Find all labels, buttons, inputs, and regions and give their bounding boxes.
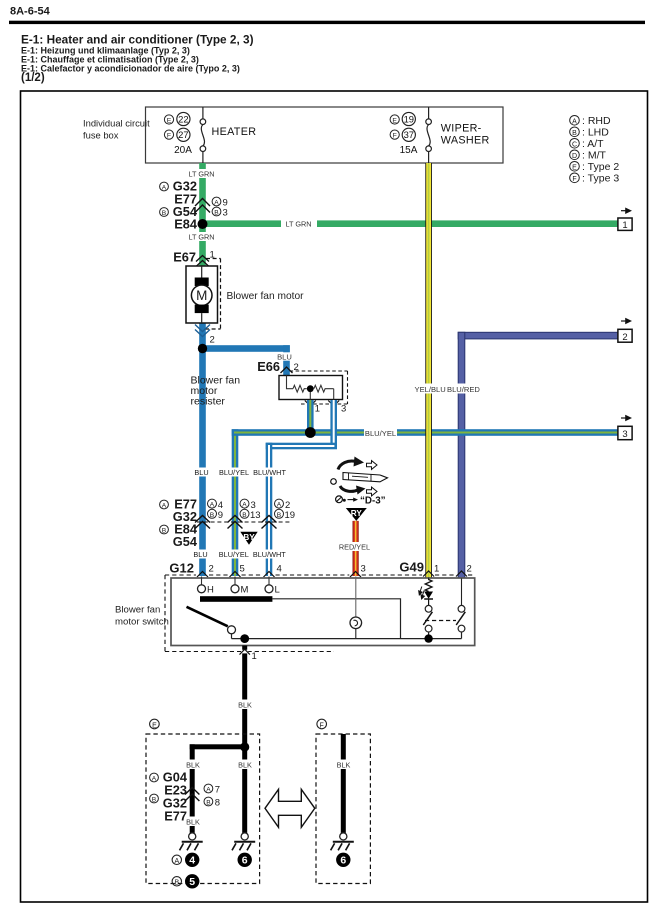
chevrons ground connector — [185, 788, 199, 802]
wire BLU/RED horizontal from terminal 2 — [458, 332, 618, 339]
wire BLU/YEL vertical to switch — [232, 429, 239, 576]
svg-text:B: B — [242, 512, 247, 519]
label BLK main — [237, 700, 253, 710]
wire BLK type 3 ground leg — [341, 734, 346, 833]
G49 pin 2 lead — [461, 579, 463, 606]
wire BLU/WHT from resister pin 3 — [330, 400, 337, 446]
svg-text:BLK: BLK — [238, 701, 252, 710]
G49 switch lower contacts — [425, 625, 432, 632]
wire BLU/YEL horizontal to terminal 3 — [232, 429, 618, 436]
wire BLU vertical main — [199, 323, 206, 576]
svg-text:G54: G54 — [173, 534, 198, 549]
svg-text:15A: 15A — [400, 145, 418, 156]
svg-text:B: B — [572, 130, 577, 137]
header rule bar — [9, 21, 645, 24]
pin A9 — [212, 197, 221, 206]
LED arrows — [419, 587, 425, 600]
svg-text:1: 1 — [434, 564, 439, 575]
lever link dashed — [425, 620, 456, 622]
wire RED/YEL to G12 pin 3 — [353, 521, 359, 576]
blower fan motor switch box — [171, 578, 475, 646]
pin B9 — [208, 509, 217, 518]
fuse WIPER-WASHER labels — [390, 112, 489, 155]
label BLK left — [185, 760, 201, 770]
svg-text:5: 5 — [240, 564, 245, 575]
svg-text:B: B — [214, 210, 219, 217]
wire from bar to lamp branch — [272, 599, 400, 639]
svg-text:E-1: Heater and air conditione: E-1: Heater and air conditioner (Type 2,… — [21, 33, 254, 47]
dashed box E — [146, 734, 260, 884]
svg-text:Individual circuit: Individual circuit — [83, 118, 150, 129]
svg-text:E: E — [167, 118, 172, 125]
pin A2 — [275, 499, 284, 508]
illumination lamp — [350, 617, 362, 629]
svg-text:7: 7 — [215, 785, 220, 796]
svg-text:BLU/YEL: BLU/YEL — [365, 429, 396, 438]
wire LT GRN vertical from heater fuse — [199, 163, 206, 266]
svg-text:2: 2 — [210, 335, 215, 346]
svg-text:B: B — [162, 210, 167, 217]
connector boundary dashed line — [197, 521, 292, 523]
BY splice triangle — [240, 532, 257, 545]
junction node below motor — [198, 344, 207, 353]
chevrons BLU/YEL wire — [228, 516, 243, 529]
svg-text:YEL/BLU: YEL/BLU — [415, 385, 446, 394]
svg-text:A: A — [162, 185, 167, 192]
circled E marker — [150, 719, 160, 729]
svg-text:Blower fan: Blower fan — [115, 605, 160, 616]
wire labels BLU BLU/YEL BLU/WHT lower row — [193, 550, 285, 559]
wire BLU vertical into E66 — [283, 345, 290, 375]
connector labels E77 G32 E84 G54 — [173, 497, 198, 550]
terminal box 1 — [618, 218, 632, 230]
connector labels G32 E77 G54 E84 — [173, 179, 198, 232]
svg-text:BLU/WHT: BLU/WHT — [253, 550, 286, 559]
wire BLK middle ground leg — [242, 747, 247, 833]
svg-text:3: 3 — [361, 564, 366, 575]
svg-text:M: M — [241, 585, 249, 596]
label LT GRN lower — [189, 232, 214, 241]
svg-text:A: A — [206, 787, 211, 794]
label BLU/YEL on horizontal wire — [364, 427, 397, 438]
connector labels G04 E23 G32 E77 — [163, 770, 188, 824]
svg-text:BLU/WHT: BLU/WHT — [253, 468, 286, 477]
svg-text:(1/2): (1/2) — [21, 72, 45, 84]
fuse WIPER-WASHER 15A — [426, 107, 432, 163]
RY splice triangle — [346, 508, 367, 521]
svg-text:motor switch: motor switch — [115, 617, 169, 628]
wire BLU/RED vertical to G49 — [458, 332, 465, 579]
label BLU at E66 — [277, 352, 293, 360]
svg-text:BLK: BLK — [186, 818, 200, 827]
switch lever contact — [228, 626, 236, 634]
svg-text:WIPER-: WIPER- — [441, 122, 482, 134]
svg-text:A: A — [242, 502, 247, 509]
switch pin M — [234, 577, 236, 585]
G49 illumination LED — [424, 592, 433, 599]
svg-text:19: 19 — [404, 113, 414, 124]
junction node illumination return — [424, 634, 432, 642]
svg-text:WASHER: WASHER — [441, 134, 490, 146]
wire BLK switch output — [242, 646, 247, 748]
terminal box 2 — [618, 329, 632, 342]
label LT GRN on horizontal wire — [281, 218, 317, 230]
svg-text:fuse box: fuse box — [83, 130, 119, 141]
svg-text:LT GRN: LT GRN — [188, 232, 214, 241]
fuse HEATER 20A — [200, 107, 206, 163]
connector boundary dashed lines G12 G49 — [165, 575, 475, 652]
D-3 harness pictogram — [331, 457, 388, 507]
svg-text:E: E — [572, 165, 577, 172]
terminal arrow 2 — [621, 319, 631, 324]
svg-text:F: F — [320, 722, 324, 729]
svg-text:“D-3”: “D-3” — [360, 495, 386, 506]
svg-text:H: H — [207, 585, 214, 596]
svg-text:C: C — [572, 142, 577, 149]
svg-text:13: 13 — [250, 510, 261, 521]
svg-text:: A/T: : A/T — [582, 138, 604, 150]
svg-text:Blower fan motor: Blower fan motor — [227, 291, 305, 302]
blower fan motor dashed outline — [205, 259, 221, 330]
ground point 5 marker — [172, 877, 181, 886]
junction node E84 — [198, 219, 208, 229]
svg-text:BLU: BLU — [193, 550, 207, 559]
label RED/YEL — [339, 542, 370, 551]
pin B8 — [204, 797, 213, 806]
pin A7 — [204, 784, 213, 793]
svg-text:1: 1 — [252, 651, 257, 662]
resister internal wiring — [287, 376, 334, 400]
ground point 6 marker type 3 — [336, 853, 350, 867]
label LT GRN upper — [189, 169, 214, 178]
svg-text:BLU/YEL: BLU/YEL — [219, 468, 249, 477]
chevrons BLU wire — [195, 516, 210, 529]
svg-text:37: 37 — [404, 129, 414, 140]
ground symbol middle — [232, 833, 255, 850]
svg-text:A: A — [572, 119, 577, 126]
svg-text:HEATER: HEATER — [212, 126, 257, 138]
ground point 6 marker — [238, 853, 252, 867]
svg-text:A: A — [152, 776, 157, 783]
terminal arrow 3 — [621, 416, 631, 421]
boundary chevrons G49 pins — [423, 571, 467, 577]
svg-text:BY: BY — [243, 533, 255, 542]
svg-text:8A-6-54: 8A-6-54 — [10, 6, 51, 18]
switch common bar — [200, 596, 272, 602]
terminal box 3 — [618, 426, 632, 439]
label BLK type 3 — [336, 760, 352, 770]
wire BLK left ground leg — [190, 744, 195, 833]
svg-text:BLK: BLK — [186, 761, 200, 770]
svg-text:3: 3 — [622, 429, 627, 440]
svg-text:E67: E67 — [173, 250, 196, 265]
dashed box F — [316, 734, 370, 884]
svg-text:A: A — [277, 502, 282, 509]
svg-text:: LHD: : LHD — [582, 127, 609, 139]
switch output pin chevron — [241, 650, 248, 654]
wire BLU/WHT vertical to switch — [266, 443, 273, 576]
junction node resister output — [305, 427, 316, 438]
G49 resistor symbol — [428, 578, 430, 581]
svg-text:E84: E84 — [174, 217, 198, 232]
wire BLU/YEL from resister pin 1 — [307, 400, 314, 433]
label BLK middle — [237, 760, 253, 770]
svg-text:27: 27 — [178, 129, 188, 140]
svg-text:B: B — [162, 528, 167, 535]
svg-text:LT GRN: LT GRN — [188, 169, 214, 178]
svg-text:E-1: Calefactor y acondicionad: E-1: Calefactor y acondicionador de aire… — [21, 64, 240, 74]
svg-text:: M/T: : M/T — [582, 150, 606, 162]
labels YEL/BLU and BLU/RED — [412, 384, 478, 394]
svg-text:6: 6 — [340, 855, 346, 867]
legend of circled option letters — [570, 115, 620, 185]
svg-text:A: A — [214, 200, 219, 207]
svg-text:B: B — [277, 512, 282, 519]
svg-text:: Type 2: : Type 2 — [582, 161, 619, 173]
motor pin 2 chevrons — [195, 325, 210, 337]
svg-text:B: B — [174, 880, 179, 887]
resister junction node — [307, 385, 314, 392]
svg-text:LT GRN: LT GRN — [285, 220, 311, 229]
ground symbol type 3 — [331, 833, 354, 850]
svg-text:G49: G49 — [399, 560, 424, 575]
pin A3 — [240, 499, 249, 508]
svg-text:: Type 3: : Type 3 — [582, 173, 619, 185]
G49 switch levers — [423, 612, 432, 625]
svg-text:BLK: BLK — [337, 761, 351, 770]
label Blower fan motor resister — [191, 375, 241, 408]
svg-text:A: A — [174, 858, 179, 865]
blower fan motor box — [186, 266, 218, 323]
label BLK below connector — [185, 817, 201, 827]
illumination lamp feed — [355, 577, 357, 618]
svg-text:M: M — [196, 288, 207, 303]
svg-text:9: 9 — [218, 510, 223, 521]
switch pin H — [201, 577, 203, 585]
svg-text:A: A — [210, 502, 215, 509]
blower fan motor resister dashed outline — [290, 371, 348, 404]
svg-text:RY: RY — [351, 509, 363, 518]
equivalence double arrow — [265, 789, 315, 827]
junction node switch output — [240, 634, 249, 643]
terminal arrow 1 — [621, 208, 631, 213]
svg-text:resister: resister — [191, 396, 226, 408]
ground branch horizontal — [190, 744, 248, 749]
wire BLU/WHT horizontal jog — [266, 443, 337, 450]
svg-text:BLU: BLU — [194, 468, 208, 477]
wire BLU horizontal to resister — [199, 345, 290, 352]
svg-text:D: D — [572, 153, 577, 160]
svg-text:5: 5 — [189, 876, 195, 888]
svg-text:19: 19 — [285, 510, 296, 521]
svg-text:B: B — [152, 797, 157, 804]
svg-text:3: 3 — [223, 208, 228, 219]
svg-text:22: 22 — [178, 113, 188, 124]
svg-text:BLU/YEL: BLU/YEL — [219, 550, 249, 559]
svg-text:4: 4 — [189, 855, 195, 867]
wire labels BLU BLU/YEL BLU/WHT upper row — [194, 468, 285, 477]
svg-text:3: 3 — [341, 404, 346, 415]
svg-text:: RHD: : RHD — [582, 115, 611, 127]
svg-text:E: E — [392, 118, 397, 125]
resister pin 3 — [328, 401, 339, 406]
svg-text:E66: E66 — [257, 359, 280, 374]
boundary chevrons G12 pins — [197, 572, 361, 578]
svg-text:1: 1 — [622, 220, 627, 231]
switch lever — [187, 607, 228, 627]
svg-text:B: B — [206, 800, 211, 807]
chevrons BLU/WHT wire — [262, 516, 277, 529]
svg-text:E: E — [152, 722, 157, 729]
svg-text:RED/YEL: RED/YEL — [339, 543, 370, 552]
svg-text:BLK: BLK — [238, 761, 252, 770]
svg-text:L: L — [275, 585, 280, 596]
svg-text:F: F — [167, 133, 171, 140]
svg-text:4: 4 — [277, 564, 282, 575]
svg-text:6: 6 — [242, 855, 248, 867]
junction node ground branch — [240, 742, 249, 751]
switch pin L — [268, 577, 270, 585]
wire LT GRN horizontal to terminal 1 — [202, 220, 618, 227]
svg-text:G12: G12 — [169, 561, 194, 576]
svg-text:E77: E77 — [164, 809, 187, 824]
svg-text:8: 8 — [215, 798, 220, 809]
pin A4 — [208, 499, 217, 508]
ground point 4 marker — [172, 855, 181, 864]
pin B13 — [240, 509, 249, 518]
svg-text:F: F — [572, 176, 576, 183]
switch output rail — [232, 638, 462, 640]
resister pin 1 — [305, 401, 316, 406]
svg-text:BLU/RED: BLU/RED — [447, 385, 480, 394]
svg-text:F: F — [393, 133, 397, 140]
fuse HEATER labels — [164, 112, 256, 155]
svg-text:1: 1 — [315, 404, 320, 415]
wire YEL/BLU vertical from wiper fuse to G49 — [425, 163, 432, 579]
svg-text:2: 2 — [467, 564, 472, 575]
individual circuit fuse box — [83, 107, 503, 163]
ground symbol left — [180, 833, 203, 850]
svg-text:20A: 20A — [174, 145, 192, 156]
svg-text:A: A — [162, 503, 167, 510]
connector chevrons on LT GRN wire — [195, 199, 210, 213]
svg-text:2: 2 — [209, 564, 214, 575]
pin B3 — [212, 207, 221, 216]
circled F marker — [317, 719, 327, 729]
svg-text:B: B — [210, 512, 215, 519]
svg-text:2: 2 — [622, 332, 627, 343]
G49 switch upper contacts — [425, 605, 432, 612]
blower fan motor resister box — [279, 376, 343, 400]
motor M symbol — [191, 266, 212, 323]
pin B19 — [275, 509, 284, 518]
